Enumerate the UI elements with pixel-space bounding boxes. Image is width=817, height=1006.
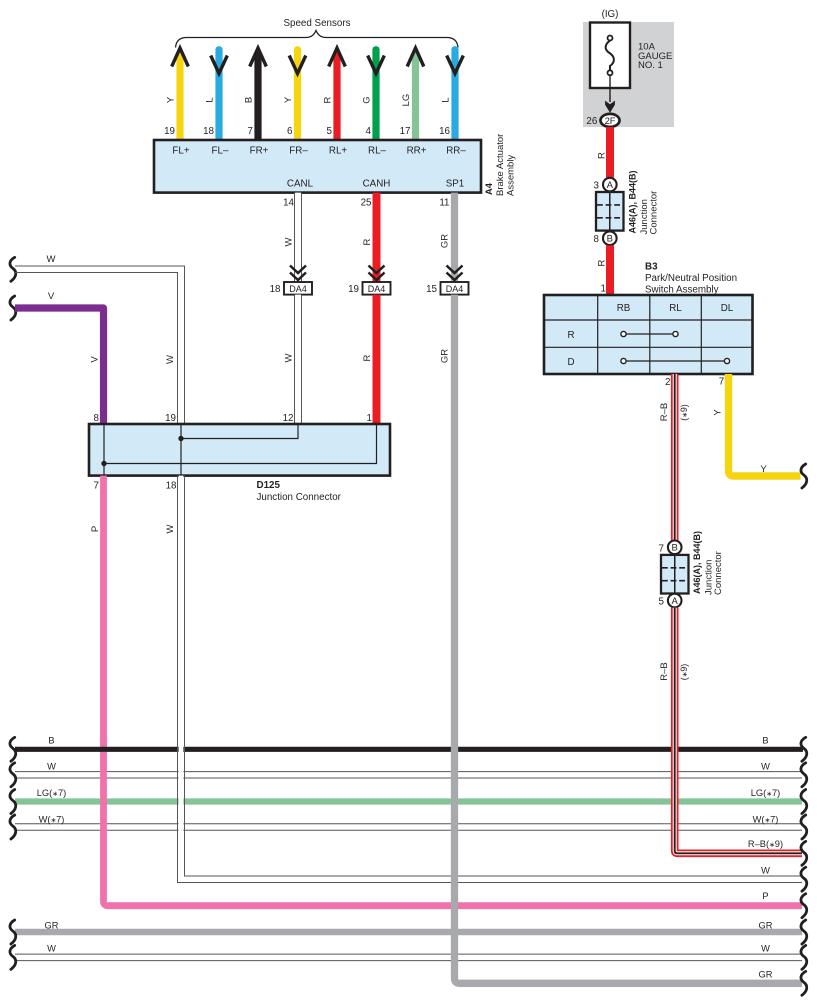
svg-text:18: 18 — [166, 480, 177, 491]
svg-text:B3: B3 — [645, 262, 658, 273]
svg-text:6: 6 — [287, 126, 293, 137]
wire GR from SP1 pin 11 — [451, 193, 458, 282]
svg-text:GR: GR — [440, 349, 451, 363]
connector DA4 pin 18 — [290, 266, 306, 274]
bus W — [15, 772, 802, 778]
svg-text:2F: 2F — [605, 116, 616, 126]
svg-text:R: R — [362, 238, 373, 245]
bus W(*7) — [15, 824, 802, 831]
svg-text:7: 7 — [248, 126, 253, 137]
svg-text:GR: GR — [440, 234, 451, 248]
svg-text:26: 26 — [586, 116, 597, 127]
sensor wire RR+ (LG) — [412, 53, 419, 141]
svg-text:5: 5 — [659, 597, 665, 608]
svg-text:W: W — [761, 761, 770, 771]
svg-text:15: 15 — [426, 284, 437, 295]
svg-text:W: W — [165, 355, 176, 364]
brake actuator assembly A4 box — [154, 140, 481, 193]
svg-text:Speed Sensors: Speed Sensors — [284, 18, 351, 29]
wire P from D125 pin 7 to right (bus P) — [104, 476, 803, 906]
speed sensors brace — [176, 31, 459, 48]
wire W from DA4 to D125 pin 12 — [295, 295, 301, 424]
svg-text:CANL: CANL — [287, 178, 314, 189]
svg-text:Y: Y — [760, 464, 767, 475]
svg-text:A: A — [607, 180, 614, 191]
svg-text:GR: GR — [759, 970, 773, 980]
svg-text:W: W — [47, 254, 56, 265]
svg-text:R: R — [596, 152, 607, 159]
svg-text:LG(∗7): LG(∗7) — [37, 788, 66, 798]
svg-text:A46(A), B44(B): A46(A), B44(B) — [628, 170, 638, 233]
svg-text:2: 2 — [665, 377, 670, 388]
svg-text:8: 8 — [94, 413, 100, 424]
svg-text:B: B — [243, 97, 254, 103]
svg-text:V: V — [90, 356, 101, 363]
svg-text:5: 5 — [327, 126, 333, 137]
svg-text:7: 7 — [94, 480, 99, 491]
svg-text:Connector: Connector — [649, 191, 660, 235]
junction connector D125 — [89, 424, 390, 476]
svg-text:8: 8 — [594, 234, 600, 245]
svg-text:A46(A), B44(B): A46(A), B44(B) — [692, 531, 702, 594]
wire R from A46 pin 8 to B3 pin 1 — [606, 245, 614, 295]
wire R from 2F to A46 pin 3 — [606, 127, 614, 178]
svg-text:12: 12 — [283, 413, 294, 424]
svg-text:19: 19 — [165, 413, 176, 424]
svg-text:FL+: FL+ — [172, 146, 189, 157]
svg-text:B: B — [672, 543, 678, 554]
wire R from CANH pin 25 — [373, 193, 381, 282]
svg-text:R–B(∗9): R–B(∗9) — [748, 839, 783, 849]
wire GR from DA4 to bottom bus GR — [455, 295, 803, 984]
svg-text:GR: GR — [45, 920, 59, 930]
svg-text:R: R — [362, 354, 373, 361]
bus GR — [15, 929, 802, 936]
svg-text:17: 17 — [400, 126, 411, 137]
svg-text:25: 25 — [361, 198, 372, 209]
svg-text:B: B — [762, 736, 768, 746]
svg-text:18: 18 — [203, 126, 214, 137]
svg-text:R–B: R–B — [659, 662, 670, 680]
wire R from DA4 to D125 pin 1 — [373, 295, 381, 424]
sensor wire FR+ (B) — [254, 53, 261, 141]
wire W from left (break) to D125 pin 19 — [10, 257, 16, 281]
svg-text:L: L — [440, 97, 451, 102]
svg-text:P: P — [762, 891, 768, 901]
svg-text:Connector: Connector — [713, 551, 724, 595]
svg-text:GR: GR — [759, 920, 773, 930]
switch contacts row D — [627, 360, 725, 362]
svg-text:D: D — [567, 357, 574, 368]
svg-text:W: W — [165, 524, 176, 533]
svg-text:4: 4 — [366, 126, 372, 137]
svg-text:LG(∗7): LG(∗7) — [751, 788, 780, 798]
connector DA4 pin 19 — [369, 266, 385, 274]
svg-text:Assembly: Assembly — [506, 155, 517, 196]
connector 2F pin 26 — [601, 114, 620, 127]
svg-text:NO. 1: NO. 1 — [638, 60, 663, 71]
park/neutral position switch assembly B3 box — [544, 295, 753, 374]
svg-text:(∗9): (∗9) — [679, 664, 689, 681]
svg-text:RR+: RR+ — [407, 146, 427, 157]
svg-text:RB: RB — [617, 303, 631, 314]
svg-text:FR+: FR+ — [250, 146, 269, 157]
svg-text:RL+: RL+ — [329, 146, 348, 157]
wire W from CANL pin 14 — [295, 193, 301, 282]
svg-text:CANH: CANH — [363, 178, 391, 189]
svg-text:FR–: FR– — [289, 146, 308, 157]
svg-text:(IG): (IG) — [602, 9, 619, 20]
svg-text:7: 7 — [659, 543, 664, 554]
svg-text:LG: LG — [401, 94, 412, 107]
svg-text:W: W — [283, 353, 294, 362]
svg-text:3: 3 — [594, 180, 600, 191]
svg-text:R: R — [322, 96, 333, 103]
svg-text:B: B — [607, 234, 613, 245]
svg-text:Y: Y — [283, 96, 294, 103]
svg-text:W: W — [761, 866, 770, 876]
sensor wire FL+ (Y) — [176, 53, 183, 141]
svg-text:W: W — [47, 943, 56, 953]
svg-text:DA4: DA4 — [446, 284, 464, 294]
svg-text:Brake Actuator: Brake Actuator — [495, 134, 506, 196]
connector DA4 pin 15 — [447, 266, 463, 274]
svg-text:W: W — [761, 943, 770, 953]
sensor wire RL+ (R) — [333, 53, 340, 141]
sensor wire RR&#8211; (L) — [451, 50, 458, 140]
svg-text:RL–: RL– — [368, 146, 387, 157]
svg-text:FL–: FL– — [212, 146, 229, 157]
svg-text:16: 16 — [439, 126, 450, 137]
svg-text:19: 19 — [164, 126, 175, 137]
svg-text:7: 7 — [719, 376, 724, 387]
svg-text:R: R — [567, 330, 574, 341]
arrow into 2F — [609, 75, 611, 102]
switch contacts row R — [627, 333, 673, 335]
svg-text:Y: Y — [165, 96, 176, 103]
svg-text:R: R — [596, 259, 607, 266]
svg-text:P: P — [90, 526, 101, 532]
bus B — [15, 747, 803, 752]
svg-text:19: 19 — [348, 284, 359, 295]
fuse 10A GAUGE NO.1 — [590, 23, 630, 89]
svg-text:RR–: RR– — [446, 146, 466, 157]
svg-text:11: 11 — [439, 198, 449, 209]
svg-text:R–B: R–B — [659, 403, 670, 421]
svg-text:W: W — [47, 761, 56, 771]
svg-text:SP1: SP1 — [446, 178, 465, 189]
wire V from left (break) to D125 pin 8 — [10, 296, 16, 320]
svg-text:DA4: DA4 — [289, 284, 307, 294]
svg-text:A4: A4 — [484, 182, 494, 195]
svg-text:1: 1 — [601, 284, 606, 295]
svg-text:B: B — [48, 736, 54, 746]
bus labels left — [10, 737, 16, 761]
svg-text:Y: Y — [712, 409, 723, 416]
svg-text:L: L — [204, 97, 215, 102]
svg-text:RL: RL — [669, 303, 682, 314]
fuse background — [583, 22, 674, 127]
bus labels right — [801, 737, 807, 761]
svg-text:W: W — [283, 237, 294, 246]
svg-text:V: V — [48, 291, 55, 302]
svg-text:1: 1 — [367, 413, 372, 424]
svg-text:A: A — [672, 596, 679, 607]
svg-text:DL: DL — [721, 303, 734, 314]
wire R-B from A46 pin 5 to bus R-B(*9) — [675, 608, 802, 854]
bus LG(*7) — [15, 798, 802, 804]
bus W lower — [15, 954, 802, 961]
svg-text:Park/Neutral Position: Park/Neutral Position — [645, 273, 737, 284]
sensor wire FR&#8211; (Y) — [294, 50, 301, 140]
svg-text:D125: D125 — [257, 480, 281, 491]
svg-text:18: 18 — [270, 284, 281, 295]
wire W from D125 pin 18 to right (bus W) — [179, 476, 184, 880]
svg-text:(∗9): (∗9) — [679, 404, 689, 421]
svg-text:Junction Connector: Junction Connector — [257, 492, 342, 503]
junction connector A46(A), B44(B) upper — [603, 178, 617, 192]
svg-text:14: 14 — [283, 198, 294, 209]
sensor wire RL&#8211; (G) — [372, 50, 379, 140]
svg-text:DA4: DA4 — [368, 284, 386, 294]
svg-text:G: G — [361, 96, 372, 103]
sensor wire FL&#8211; (L) — [215, 50, 222, 140]
junction connector A46(A), B44(B) lower — [668, 541, 682, 555]
